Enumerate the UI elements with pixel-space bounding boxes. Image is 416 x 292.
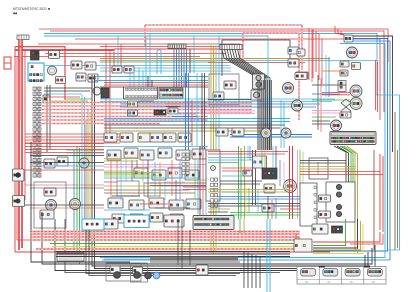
svg-text:■■: ■■ (13, 12, 17, 16)
svg-text:MT07A/MT07HC 2021 ■: MT07A/MT07HC 2021 ■ (13, 7, 50, 11)
svg-text:□□: □□ (372, 281, 376, 284)
svg-text:□□: □□ (305, 281, 309, 284)
svg-text:□□: □□ (327, 281, 331, 284)
svg-text:□□: □□ (350, 281, 354, 284)
